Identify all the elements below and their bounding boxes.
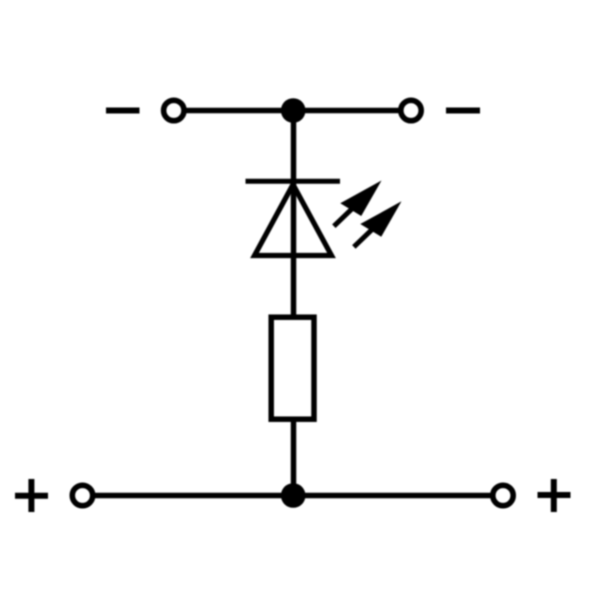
- plus sign right (positive rail): [538, 479, 571, 512]
- LED light emission arrow 1: [325, 172, 389, 235]
- terminal circle bottom-left: [72, 485, 92, 505]
- wire bottom rail: [83, 493, 504, 499]
- plus sign left (positive rail): [15, 479, 48, 512]
- LED triangle (anode): [255, 185, 332, 256]
- wire vertical branch: [291, 111, 297, 496]
- minus sign right (negative rail): [446, 108, 480, 114]
- terminal circle top-right: [401, 100, 421, 120]
- LED light emission arrow 2: [345, 193, 409, 256]
- terminal circle bottom-right: [493, 485, 513, 505]
- resistor (IEC box): [271, 317, 314, 419]
- minus sign left (negative rail): [106, 108, 140, 114]
- node junction top: [281, 98, 306, 123]
- node junction bottom: [281, 483, 306, 508]
- wire top rail: [174, 108, 411, 114]
- terminal circle top-left: [164, 100, 184, 120]
- LED cathode bar: [246, 179, 341, 184]
